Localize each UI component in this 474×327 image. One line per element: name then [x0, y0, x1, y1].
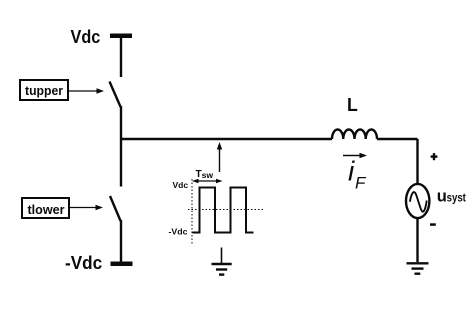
svg-text:Tsw: Tsw [196, 169, 214, 180]
svg-text:-Vdc: -Vdc [65, 252, 102, 273]
svg-text:F: F [355, 174, 367, 193]
svg-text:Vdc: Vdc [173, 180, 189, 190]
svg-text:syst: syst [447, 192, 466, 204]
svg-text:-Vdc: -Vdc [169, 226, 188, 236]
svg-text:tlower: tlower [28, 202, 65, 217]
svg-text:Vdc: Vdc [71, 26, 101, 47]
svg-text:tupper: tupper [25, 83, 63, 98]
svg-text:u: u [437, 187, 447, 205]
svg-text:i: i [348, 156, 355, 187]
svg-text:L: L [347, 95, 358, 115]
